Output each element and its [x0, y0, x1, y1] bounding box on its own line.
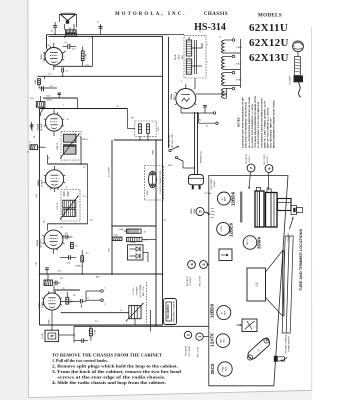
wire detector out	[39, 108, 128, 325]
resistor R14	[81, 47, 87, 67]
wire B+ distribution	[114, 133, 163, 141]
chassis speaker cone	[266, 251, 285, 317]
resistor R2 47K	[66, 292, 73, 304]
tube V1 12BE6 converter	[39, 293, 61, 330]
svg-text:2. Remove split plugs which h: 2. Remove split plugs which hold the loo…	[52, 364, 178, 369]
page right edge	[311, 27, 313, 390]
svg-text:SEC (TOP): SEC (TOP)	[264, 154, 266, 165]
svg-text:INPUT VOLTAGE (+/-10%): INPUT VOLTAGE (+/-10%)	[267, 108, 270, 148]
svg-text:C19B: C19B	[130, 242, 136, 244]
electrolytic C19A	[124, 229, 141, 233]
svg-text:22K: 22K	[158, 127, 160, 131]
resistor R13 volume	[36, 96, 52, 107]
osc section rotated notes	[133, 284, 145, 297]
title MODELS 62X11U 62X12U 62X13U	[249, 14, 289, 65]
svg-text:12BE6: 12BE6	[39, 301, 41, 308]
resistor R1 270K	[89, 326, 96, 340]
svg-text:UNLESS OTHERWISE SPECIFIED: UNLESS OTHERWISE SPECIFIED	[245, 101, 247, 148]
svg-text:62X11U: 62X11U	[249, 22, 288, 34]
svg-text:62X13U: 62X13U	[249, 52, 289, 64]
svg-text:L4 OSC: L4 OSC	[133, 287, 135, 295]
capacitor C17	[62, 68, 69, 77]
svg-text:540-1620KC: 540-1620KC	[167, 304, 170, 318]
svg-text:LEADS: LEADS	[213, 180, 216, 187]
svg-text:K=1000 TOLERANCE +/-10%: K=1000 TOLERANCE +/-10%	[251, 104, 254, 148]
svg-text:35C5: 35C5	[210, 363, 215, 374]
page bottom margin	[0, 390, 312, 400]
output transformer T2	[65, 24, 77, 36]
wire cathode	[54, 37, 93, 66]
dial bar	[282, 236, 293, 333]
speaker SP1	[59, 13, 76, 27]
svg-text:PRI (BOT): PRI (BOT)	[246, 154, 248, 164]
svg-text:4. Slide the radio chassis an: 4. Slide the radio chassis and loop from…	[52, 380, 166, 385]
svg-text:12BD6: 12BD6	[38, 179, 40, 186]
svg-text:RECT: RECT	[247, 238, 249, 244]
volume control shaft	[274, 333, 291, 361]
svg-text:GRN: GRN	[147, 190, 149, 195]
svg-text:12AT6: 12AT6	[37, 123, 40, 130]
wire IF grid line	[48, 164, 88, 231]
long vertical rails	[155, 37, 163, 326]
node junction dots top	[54, 34, 93, 38]
tube V5 35W4 rectifier	[170, 78, 227, 113]
volume pot wiper arrow	[41, 107, 45, 116]
svg-text:1. Pull off the two control k: 1. Pull off the two control knobs.	[52, 358, 108, 363]
svg-text:MEASUREMENTS MADE WITH GANG: MEASUREMENTS MADE WITH GANG	[272, 100, 275, 148]
svg-text:IF AMP: IF AMP	[40, 179, 43, 186]
IF transformer T5	[57, 190, 80, 222]
svg-text:RECT: RECT	[174, 93, 176, 99]
svg-text:TO REMOVE THE CHASSIS FROM THE: TO REMOVE THE CHASSIS FROM THE CABINET	[52, 353, 162, 358]
svg-text:117V AC: 117V AC	[204, 192, 213, 195]
capacitor C13	[30, 122, 36, 138]
tube V2 12AT6 AF section	[37, 108, 63, 136]
external antenna illustration	[289, 41, 304, 97]
IF transformer T4 2nd IF	[57, 131, 81, 164]
svg-text:35W4: 35W4	[257, 237, 262, 249]
electrolytic can	[237, 319, 258, 332]
chassis outline	[209, 176, 288, 386]
svg-text:1 GRN: 1 GRN	[236, 47, 243, 49]
svg-text:C19A: C19A	[118, 228, 124, 231]
capacitor C20	[51, 22, 57, 35]
svg-text:455KC: 455KC	[82, 139, 89, 141]
chassis tube 12BD6 bottom	[210, 303, 231, 319]
svg-text:GRN: GRN	[49, 319, 51, 324]
loop antenna L1 coils	[222, 39, 243, 98]
electrolytic C19B	[127, 237, 157, 241]
svg-text:2: 2	[186, 334, 190, 336]
svg-text:NOTES: NOTES	[237, 117, 241, 127]
svg-text:DET: DET	[221, 338, 223, 343]
oscillator coil can in chassis	[219, 249, 232, 261]
svg-text:LS: LS	[255, 283, 259, 287]
svg-text:B-: B-	[206, 126, 208, 128]
wire conv plate	[61, 301, 77, 303]
svg-text:P.M. SPKR: P.M. SPKR	[211, 178, 213, 189]
svg-text:VOLTAGES TAKEN BETWEEN POINT: VOLTAGES TAKEN BETWEEN POINT	[261, 97, 264, 148]
wave trap L3	[28, 145, 46, 153]
svg-text:AF AMP: AF AMP	[40, 123, 43, 131]
svg-text:TRAP: TRAP	[193, 208, 196, 214]
svg-text:455 KC: 455 KC	[267, 156, 269, 163]
svg-text:150K: 150K	[35, 79, 37, 84]
svg-text:1ST I.F.: 1ST I.F.	[57, 202, 59, 210]
test point terminals	[86, 290, 103, 302]
svg-text:PRI (BOT): PRI (BOT)	[186, 346, 188, 356]
svg-text:WAVE: WAVE	[190, 207, 193, 214]
svg-text:B+ (140V): B+ (140V)	[109, 167, 111, 177]
wire grid return	[43, 93, 78, 109]
svg-text:SEC (TOP): SEC (TOP)	[200, 275, 202, 286]
svg-text:RED: RED	[153, 149, 155, 154]
svg-text:ELECTRONIC TYPE VOLTMETER: ELECTRONIC TYPE VOLTMETER	[258, 101, 260, 148]
svg-text:3 RED: 3 RED	[236, 80, 243, 82]
resistor R12	[35, 79, 41, 88]
capacitor C16 grid	[63, 42, 76, 49]
svg-text:BLK: BLK	[182, 54, 184, 59]
wire top B+ bus	[47, 35, 169, 49]
svg-text:2ND I.F.: 2ND I.F.	[57, 142, 59, 150]
instructions text	[52, 353, 182, 386]
capacitor C3	[77, 299, 86, 308]
chassis tube 12BE6	[217, 222, 234, 237]
svg-text:NO SIGNAL INPUT: NO SIGNAL INPUT	[270, 117, 273, 148]
svg-text:AVC: AVC	[96, 276, 101, 279]
svg-text:ON VOL CONT: ON VOL CONT	[172, 133, 174, 148]
loop antenna terminal L1	[42, 330, 59, 341]
tube pin stubs	[42, 46, 197, 305]
notes text block	[237, 95, 276, 148]
T1 T2 connections box	[145, 166, 164, 201]
wire osc top	[54, 285, 80, 293]
svg-text:OSC 455KC: OSC 455KC	[189, 345, 191, 357]
svg-text:EXT ANT: EXT ANT	[289, 75, 292, 84]
B+ rail	[109, 140, 113, 274]
svg-text:ANT. COIL: ANT. COIL	[142, 285, 145, 296]
svg-text:BLUE: BLUE	[175, 54, 177, 60]
svg-text:12BD6: 12BD6	[210, 303, 215, 318]
wire bottom bus	[40, 325, 209, 343]
transformer T3 dashed box	[169, 35, 207, 79]
chassis tube 12BD6 top	[217, 191, 235, 206]
svg-text:270K: 270K	[95, 329, 97, 334]
oscillator coil L2	[126, 282, 151, 332]
svg-text:AMP: AMP	[224, 196, 227, 201]
trimmer callout 4	[187, 261, 195, 286]
svg-text:DET AVC: DET AVC	[39, 238, 42, 247]
svg-text:1MEG: 1MEG	[46, 100, 52, 102]
resistor R6	[71, 243, 79, 249]
oscillator coil L4	[44, 274, 52, 285]
svg-text:CONV: CONV	[221, 225, 223, 232]
misc value labels	[30, 32, 222, 324]
wave trap callout 5	[190, 207, 215, 218]
electrolytic can B	[240, 192, 242, 223]
filter capacitor pack C19	[128, 245, 149, 262]
svg-text:& PWR SWITCH: & PWR SWITCH	[289, 336, 291, 352]
chassis IF can 1	[255, 187, 264, 227]
svg-text:INTERLOCK: INTERLOCK	[200, 150, 202, 163]
svg-text:IF 455KC: IF 455KC	[190, 276, 192, 285]
svg-text:B-: B-	[165, 219, 167, 221]
trimmer callout 6	[264, 154, 273, 190]
svg-text:455 KC: 455 KC	[249, 155, 251, 162]
chassis tube 35W4	[243, 236, 261, 250]
trimmer callout 2	[184, 331, 191, 356]
svg-text:AVC: AVC	[223, 338, 226, 343]
svg-text:35C5: 35C5	[41, 54, 43, 60]
chassis tube 12AT6	[210, 333, 230, 348]
wire AVC bus	[39, 268, 163, 275]
capacitor C11 .002	[60, 255, 76, 264]
svg-text:470K: 470K	[86, 53, 88, 58]
svg-text:VOLUME CONTROL: VOLUME CONTROL	[286, 333, 288, 353]
wire osc grid line	[61, 312, 129, 314]
plug P1	[189, 175, 204, 190]
svg-text:12BE6: 12BE6	[229, 223, 234, 237]
svg-text:AMP: AMP	[223, 310, 226, 315]
svg-text:CAPACITORS ARE INDICATED IN MF: CAPACITORS ARE INDICATED IN MF	[241, 96, 244, 148]
title CHASSIS HS-314	[194, 12, 228, 33]
svg-text:ON-OFF SW: ON-OFF SW	[169, 135, 171, 147]
resistor R10	[112, 237, 122, 241]
svg-text:ALL RESISTORS INDICATED IN OHM: ALL RESISTORS INDICATED IN OHM	[248, 97, 251, 148]
chassis speaker magnet	[247, 268, 266, 301]
svg-text:T1 & T2 CONNECTIONS: T1 & T2 CONNECTIONS	[160, 170, 162, 194]
wire B+ test points	[181, 106, 218, 125]
on-off switch SW1	[169, 37, 195, 168]
tuning gang	[278, 199, 303, 241]
svg-text:MOTOROLA, INC.: MOTOROLA, INC.	[115, 12, 187, 17]
resistor R7 10MEG	[75, 250, 84, 274]
dashed resistor network box	[128, 109, 161, 137]
capacitor C2	[52, 281, 60, 286]
frequency range badge	[164, 299, 177, 325]
svg-text:5 TURNS: 5 TURNS	[136, 286, 138, 295]
svg-text:1: 1	[198, 336, 202, 338]
trimmer callout 1	[196, 333, 209, 357]
capacitor C1	[74, 339, 88, 343]
svg-text:VOLTAGE MEASUREMENTS MADE WITH: VOLTAGE MEASUREMENTS MADE WITH	[254, 95, 257, 148]
svg-text:TUBE AND TRIMMER LOCATIONS: TUBE AND TRIMMER LOCATIONS	[299, 228, 303, 291]
svg-text:12AT6: 12AT6	[210, 333, 215, 347]
capacitor C10	[63, 233, 73, 239]
tube V3 12BD6 IF amp	[38, 166, 63, 192]
page left margin	[0, 0, 29, 398]
svg-text:AND B- LINE TUBULATURE 117V: AND B- LINE TUBULATURE 117V	[264, 100, 267, 148]
wire filter line	[111, 225, 156, 227]
svg-text:NO. 20 WIRE: NO. 20 WIRE	[140, 284, 142, 297]
svg-text:RED: RED	[178, 54, 180, 59]
svg-text:12BD6: 12BD6	[231, 191, 236, 206]
chassis tube 35C5	[210, 362, 232, 376]
svg-text:LOOP: LOOP	[42, 333, 44, 339]
capacitor C14	[39, 86, 57, 91]
trimmer callout 7	[246, 154, 255, 190]
wire AF line	[38, 76, 163, 80]
tube V4 35C5	[41, 43, 66, 70]
svg-text:SEC (TOP): SEC (TOP)	[198, 346, 200, 357]
trimmer callout 3	[200, 261, 209, 287]
chassis top labels	[211, 178, 216, 189]
tube V2b 12AT6 det	[36, 230, 63, 254]
svg-text:12AT6: 12AT6	[36, 239, 39, 246]
svg-text:MODELS: MODELS	[258, 14, 282, 19]
wire IF plate line	[48, 155, 88, 165]
pilot lamp	[97, 22, 103, 35]
svg-text:62X12U: 62X12U	[249, 37, 289, 49]
svg-text:PWR: PWR	[223, 366, 225, 371]
volume control	[246, 337, 271, 361]
svg-text:AMP: AMP	[224, 366, 227, 371]
power cord	[195, 112, 203, 174]
svg-text:FREQUENCY RANGE: FREQUENCY RANGE	[172, 300, 175, 322]
svg-text:CHASSIS: CHASSIS	[204, 12, 228, 17]
chassis IF can 2	[266, 189, 278, 227]
svg-text:10MEG: 10MEG	[75, 266, 82, 268]
svg-text:PRI (BOT): PRI (BOT)	[187, 276, 189, 286]
svg-text:35W4: 35W4	[170, 93, 173, 99]
svg-text:3. From the back of the cabin: 3. From the back of the cabinet, remove …	[52, 369, 182, 374]
svg-text:47K: 47K	[71, 299, 73, 303]
svg-text:C13 250: C13 250	[32, 123, 34, 132]
svg-text:screws at the rear edge of the: screws at the rear edge of the radio cha…	[58, 375, 166, 380]
